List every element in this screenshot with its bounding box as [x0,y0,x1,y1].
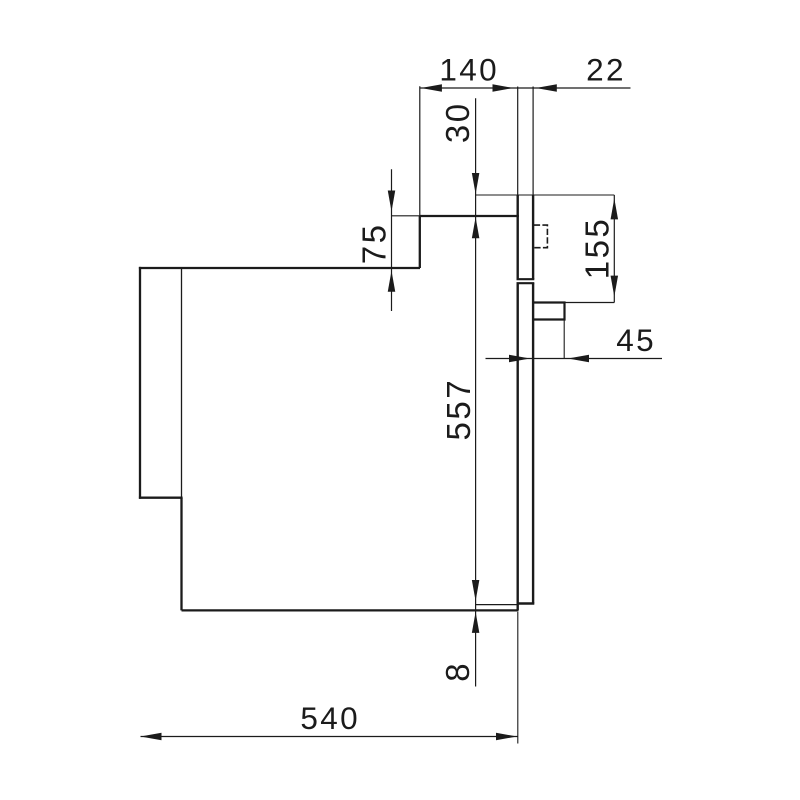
arrow 557 up [472,217,480,238]
svg-text:140: 140 [439,52,499,88]
panel thick left edge lower section [517,283,519,610]
oven step top edge [420,215,519,217]
oven bottom edge [182,609,519,611]
panel upper thin left edge [517,87,519,196]
panel upper section bottom cap [517,278,535,280]
arrow 45 pointing left at bracket edge [568,355,589,363]
oven flange bottom edge [139,497,183,499]
svg-text:155: 155 [579,217,616,280]
arrow 8 up from below [472,612,480,633]
svg-text:22: 22 [586,52,626,88]
svg-text:540: 540 [300,700,360,736]
oven lower left edge [180,498,182,611]
arrow 75 down [388,191,396,212]
extension line 45 right [563,320,565,359]
oven step left edge [419,216,421,268]
svg-text:557: 557 [440,378,477,441]
svg-text:75: 75 [356,223,393,265]
niche top reference line [476,194,615,196]
extension line 8 top [476,604,518,606]
arrow 140 right [493,84,514,92]
extension line 75 top [392,215,420,217]
arrow 540 left [141,733,162,741]
panel thick right edge lower section [532,283,534,603]
mounting bracket outline [533,303,564,320]
dimension 45 line [486,358,663,360]
oven left edge [139,267,141,499]
arrow 140 left [421,84,442,92]
dimension 155 vertical line [613,195,615,303]
panel thick left edge upper section [517,195,519,279]
extension line 155 bottom [565,302,615,304]
arrow 75 up [388,271,396,292]
dimension 540 line [141,736,518,738]
svg-text:30: 30 [439,101,476,143]
panel lower section top cap [517,282,535,284]
dimension 75 vertical line [391,169,393,311]
dashed catch recess box [534,225,548,248]
arrow 45 pointing right at panel [509,355,530,363]
arrow 155 up [611,198,619,219]
svg-text:8: 8 [439,661,476,682]
panel upper thin right edge [532,87,534,196]
arrow 557 down [472,580,480,601]
panel bottom cap [517,602,535,604]
dimension 140/22 line [420,87,631,89]
panel thick right edge upper section [532,195,534,279]
oven inner flange line [181,269,183,497]
oven main top edge [139,267,420,269]
extension line 540 right [517,612,519,744]
oven body outline [139,216,519,610]
dimension 30/557/8 vertical line [475,98,477,686]
arrow 155 down [611,276,619,297]
arrow 22 left [536,84,557,92]
extension line left of 140 [419,86,421,216]
svg-text:45: 45 [616,322,656,358]
arrow 540 right [496,733,517,741]
arrow 30 down [472,173,480,194]
